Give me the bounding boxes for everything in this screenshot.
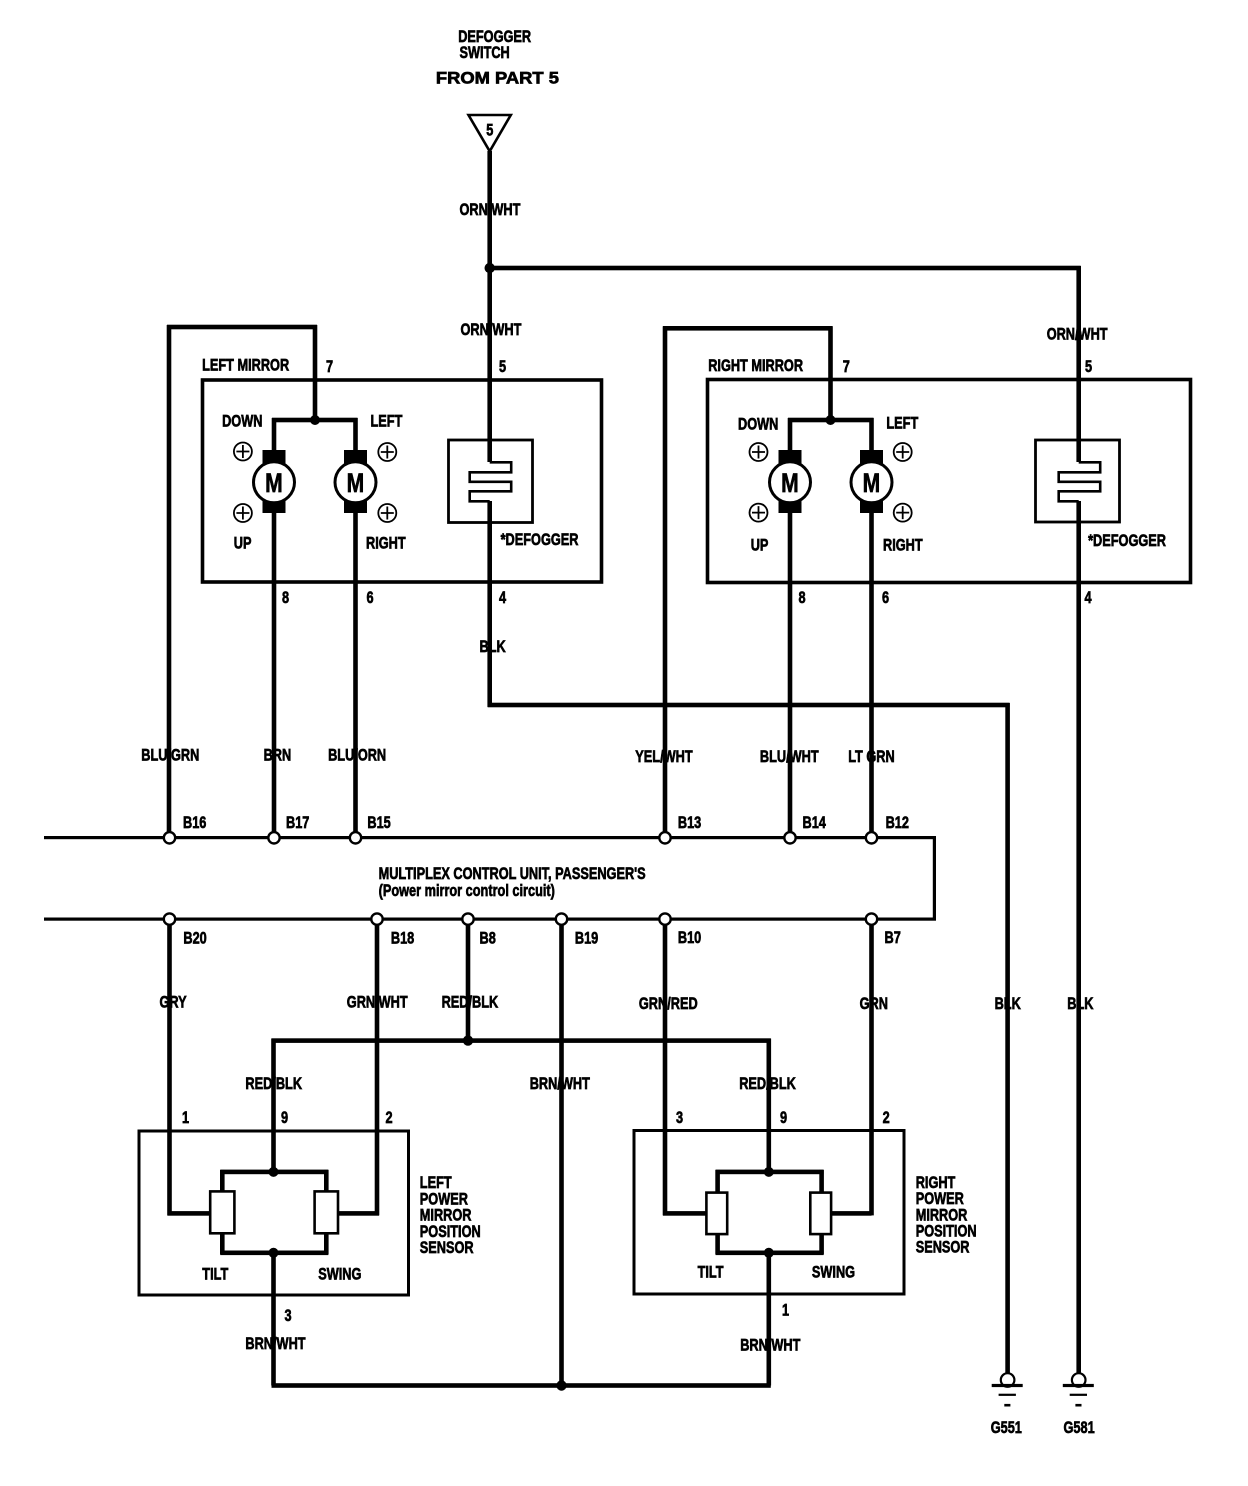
component box left mirror [203, 380, 602, 582]
defogger box right [1036, 440, 1120, 522]
svg-text:3: 3 [676, 1108, 683, 1127]
svg-text:GRN: GRN [860, 994, 888, 1013]
wire ORN/WHT right vertical to right defogger [1076, 266, 1081, 462]
svg-text:7: 7 [843, 357, 850, 376]
svg-text:B15: B15 [367, 813, 390, 832]
wire left sensor bottom rail [220, 1251, 328, 1256]
wire left sensor pin 3 down [271, 1253, 276, 1386]
wire RED/BLK from B8 down to branch [466, 925, 471, 1043]
wire horizontal ORN/WHT branch to right [490, 266, 1081, 271]
wire tilt pot bottom [220, 1233, 225, 1254]
svg-text:BRN/WHT: BRN/WHT [245, 1334, 306, 1353]
terminal B17 [268, 832, 279, 843]
wire GRN/WHT from B18 to left sensor pin 2 [375, 925, 380, 1215]
node junction BRN/WHT bottom [556, 1380, 566, 1390]
node junction at ORN/WHT split [485, 263, 495, 273]
wire RED/BLK branch horizontal [272, 1038, 771, 1043]
wire branch to both right mirror motors [788, 418, 874, 423]
motor M right mirror left/right [860, 450, 883, 464]
wire tilt pot bottom right [715, 1234, 720, 1254]
svg-text:B13: B13 [678, 813, 701, 832]
svg-text:6: 6 [882, 588, 889, 607]
svg-text:5: 5 [486, 121, 493, 140]
svg-text:*DEFOGGER: *DEFOGGER [501, 530, 579, 549]
svg-text:B18: B18 [391, 929, 414, 948]
svg-text:6: 6 [367, 588, 374, 607]
svg-text:M: M [347, 469, 365, 499]
multiplex control unit top bus line [44, 836, 936, 839]
adjust screw symbol top-left [234, 443, 252, 461]
svg-text:B10: B10 [678, 928, 701, 947]
svg-text:B16: B16 [183, 813, 206, 832]
wire drop to tilt pot right [715, 1170, 720, 1193]
adjust screw symbol top-right [378, 443, 396, 461]
svg-text:GRN/RED: GRN/RED [639, 994, 698, 1013]
connector triangle 5 (from part 5) [469, 115, 511, 151]
node junction RED/BLK branch [463, 1035, 473, 1045]
node junction right pin7 branch [826, 415, 836, 425]
svg-text:5: 5 [499, 357, 506, 376]
wire BRN/WHT bottom horizontal joining both sensors [272, 1383, 771, 1388]
wire RED/BLK right branch down to right sensor pin 9 [767, 1039, 772, 1174]
terminal B8 [462, 913, 473, 924]
svg-text:B20: B20 [183, 929, 206, 948]
svg-text:SWITCH: SWITCH [460, 43, 510, 62]
defogger heater element right [1059, 462, 1101, 501]
label RIGHT POWER MIRROR POSITION SENSOR [916, 1173, 977, 1257]
wire left mirror feed: B16 up, over, down to pin 7 [167, 325, 172, 834]
svg-text:LEFT: LEFT [371, 412, 404, 431]
svg-text:LT GRN: LT GRN [848, 747, 894, 766]
component box right power mirror position sensor [634, 1131, 904, 1295]
svg-text:1: 1 [182, 1108, 189, 1127]
wire ORN/WHT main vertical from triangle to left defogger [487, 151, 492, 462]
svg-text:RIGHT: RIGHT [366, 534, 406, 553]
svg-text:DOWN: DOWN [222, 412, 262, 431]
wire GRY into tilt wiper [168, 1211, 211, 1216]
svg-text:M: M [781, 469, 799, 499]
adjust screw symbol right box top-left [750, 443, 768, 461]
svg-text:UP: UP [234, 534, 252, 553]
svg-text:4: 4 [499, 588, 507, 607]
adjust screw symbol right box bottom-right [894, 504, 912, 522]
svg-text:2: 2 [386, 1108, 393, 1127]
wire motor leftright to B15 [353, 513, 358, 834]
node junction right sensor pin 9 top [764, 1167, 774, 1177]
wire drop to swing pot right [819, 1170, 824, 1193]
svg-text:3: 3 [285, 1306, 292, 1325]
wire right sensor bottom rail [716, 1251, 824, 1256]
svg-text:BLU/GRN: BLU/GRN [141, 746, 199, 765]
wire GRN/RED from B10 to right sensor pin 3 [663, 925, 668, 1215]
component box left power mirror position sensor [139, 1131, 409, 1295]
motor M left mirror left/right [344, 450, 367, 464]
svg-text:M: M [863, 469, 881, 499]
potentiometer SWING left [315, 1191, 338, 1233]
node junction pin7 branch [310, 415, 320, 425]
wire right motor leftright to B12 [869, 513, 874, 834]
svg-text:8: 8 [799, 588, 806, 607]
svg-text:SENSOR: SENSOR [916, 1238, 970, 1257]
wire defogger left exit to BLK corner [487, 501, 492, 707]
node junction left sensor pin 9 top [269, 1167, 279, 1177]
svg-text:SENSOR: SENSOR [420, 1238, 474, 1257]
svg-text:G551: G551 [991, 1418, 1022, 1437]
wire GRN into swing wiper right [831, 1211, 871, 1216]
svg-text:UP: UP [751, 536, 769, 555]
wire down to motor up/down [272, 418, 277, 451]
svg-text:B8: B8 [480, 929, 496, 948]
wire swing pot bottom right [819, 1234, 824, 1254]
terminal B13 [659, 832, 670, 843]
svg-text:8: 8 [282, 588, 289, 607]
wire GRN from B7 to right sensor pin 2 [869, 925, 874, 1215]
svg-text:BRN/WHT: BRN/WHT [530, 1074, 591, 1093]
ground G581 symbol [1063, 1373, 1094, 1406]
svg-text:B17: B17 [286, 813, 309, 832]
terminal B12 [866, 832, 877, 843]
component box right mirror [708, 380, 1191, 583]
svg-text:B19: B19 [575, 929, 598, 948]
wire down to right motor left/right [869, 418, 874, 451]
svg-text:M: M [265, 469, 283, 499]
wire drop to swing pot [324, 1170, 329, 1192]
svg-text:GRN/WHT: GRN/WHT [347, 993, 409, 1012]
terminal B16 [164, 832, 175, 843]
svg-text:BLK: BLK [480, 637, 506, 656]
adjust screw symbol bottom-left [234, 504, 252, 522]
svg-text:BLU/WHT: BLU/WHT [760, 747, 819, 766]
wire motor updown to B17 [272, 513, 277, 834]
svg-text:4: 4 [1085, 588, 1093, 607]
svg-text:2: 2 [883, 1108, 890, 1127]
wire right sensor top rail [716, 1170, 824, 1175]
wire right defogger exit BLK to ground G581 [1076, 501, 1081, 1374]
svg-text:YEL/WHT: YEL/WHT [635, 747, 693, 766]
svg-text:1: 1 [782, 1301, 789, 1320]
terminal B18 [371, 913, 382, 924]
wire GRN/RED into tilt wiper right [663, 1211, 706, 1216]
potentiometer TILT left [210, 1191, 234, 1233]
svg-text:5: 5 [1085, 357, 1092, 376]
svg-text:FROM PART 5: FROM PART 5 [436, 68, 559, 87]
terminal B7 [866, 913, 877, 924]
wire BLK horizontal run to right [488, 703, 1010, 708]
svg-text:LEFT: LEFT [886, 414, 919, 433]
wire right mirror feed: B13 up, over, down to pin 7 [663, 326, 668, 834]
potentiometer SWING right [810, 1193, 831, 1235]
svg-text:RIGHT: RIGHT [883, 536, 923, 555]
wire BLK vertical down to ground G551 [1005, 703, 1010, 1374]
svg-text:GRY: GRY [160, 993, 187, 1012]
svg-text:B12: B12 [886, 813, 909, 832]
adjust screw symbol bottom-right [378, 504, 396, 522]
svg-text:SWING: SWING [812, 1263, 855, 1282]
terminal B15 [350, 832, 361, 843]
svg-text:9: 9 [281, 1108, 288, 1127]
node junction left sensor bottom [269, 1248, 279, 1258]
terminal B19 [556, 913, 567, 924]
svg-text:ORN/WHT: ORN/WHT [461, 320, 523, 339]
ground G551 symbol [992, 1373, 1023, 1406]
wire GRN/WHT into swing wiper [338, 1211, 379, 1216]
multiplex control unit bottom bus line [44, 918, 936, 921]
svg-text:TILT: TILT [698, 1263, 725, 1282]
adjust screw symbol right box bottom-left [750, 504, 768, 522]
terminal B14 [784, 832, 795, 843]
wire down to motor left/right [353, 418, 358, 451]
svg-text:RIGHT MIRROR: RIGHT MIRROR [708, 356, 803, 375]
svg-text:SWING: SWING [318, 1265, 361, 1284]
svg-text:RED/BLK: RED/BLK [739, 1074, 796, 1093]
wire swing pot bottom [324, 1233, 329, 1254]
wire drop to tilt pot [220, 1170, 225, 1192]
svg-text:(Power mirror control circuit): (Power mirror control circuit) [379, 881, 555, 900]
terminal B10 [659, 913, 670, 924]
svg-text:9: 9 [780, 1108, 787, 1127]
defogger box left [449, 440, 533, 523]
svg-text:7: 7 [326, 357, 333, 376]
wire RED/BLK left branch down to left sensor pin 9 [271, 1039, 276, 1174]
svg-text:TILT: TILT [202, 1265, 229, 1284]
svg-text:B7: B7 [885, 928, 901, 947]
node junction right sensor bottom [764, 1248, 774, 1258]
svg-text:BLK: BLK [1067, 994, 1093, 1013]
wire right sensor pin 1 down [767, 1253, 772, 1386]
svg-text:ORN/WHT: ORN/WHT [1047, 325, 1109, 344]
wire BRN/WHT from B19 down to bottom junction [559, 925, 564, 1388]
wire left sensor top rail [220, 1170, 328, 1175]
adjust screw symbol right box top-right [894, 443, 912, 461]
wire down to right motor up/down [788, 418, 793, 451]
wire right motor updown to B14 [788, 513, 793, 834]
svg-text:ORN/WHT: ORN/WHT [460, 200, 522, 219]
motor M right mirror up/down [779, 450, 802, 464]
svg-text:*DEFOGGER: *DEFOGGER [1088, 531, 1166, 550]
wire GRY from B20 to left sensor [167, 925, 172, 1215]
label LEFT POWER MIRROR POSITION SENSOR [420, 1173, 481, 1257]
svg-text:G581: G581 [1064, 1418, 1095, 1437]
svg-text:DOWN: DOWN [738, 415, 778, 434]
svg-text:BLU/ORN: BLU/ORN [328, 746, 386, 765]
svg-text:RED/BLK: RED/BLK [442, 993, 499, 1012]
terminal B20 [164, 913, 175, 924]
wire branch to both left mirror motors [272, 418, 358, 423]
svg-text:B14: B14 [803, 813, 827, 832]
svg-text:RED/BLK: RED/BLK [245, 1074, 302, 1093]
svg-text:BRN/WHT: BRN/WHT [740, 1336, 801, 1355]
svg-text:BLK: BLK [995, 994, 1021, 1013]
defogger heater element left [470, 462, 512, 501]
multiplex control unit right edge [933, 836, 936, 920]
motor M left mirror up/down [263, 450, 286, 464]
svg-text:BRN: BRN [264, 746, 292, 765]
potentiometer TILT right [706, 1193, 727, 1235]
svg-text:LEFT MIRROR: LEFT MIRROR [202, 356, 289, 375]
